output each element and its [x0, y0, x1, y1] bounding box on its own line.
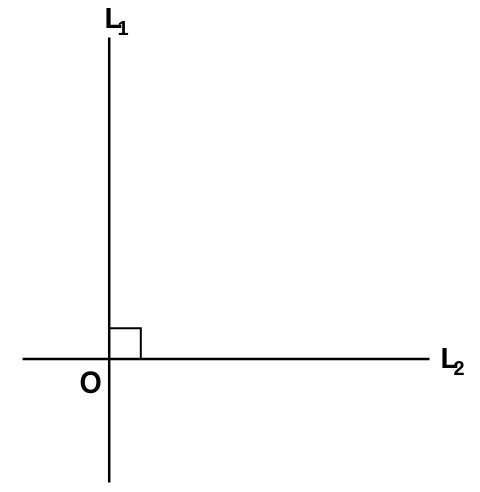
- right-angle marker at O: [109, 328, 141, 359]
- line L2 (horizontal): [23, 358, 430, 361]
- label L2: [441, 343, 465, 380]
- svg-text:1: 1: [118, 18, 129, 40]
- label L1: [105, 3, 129, 40]
- svg-text:O: O: [80, 366, 102, 401]
- line L1 (vertical): [108, 38, 111, 483]
- svg-text:2: 2: [454, 358, 465, 380]
